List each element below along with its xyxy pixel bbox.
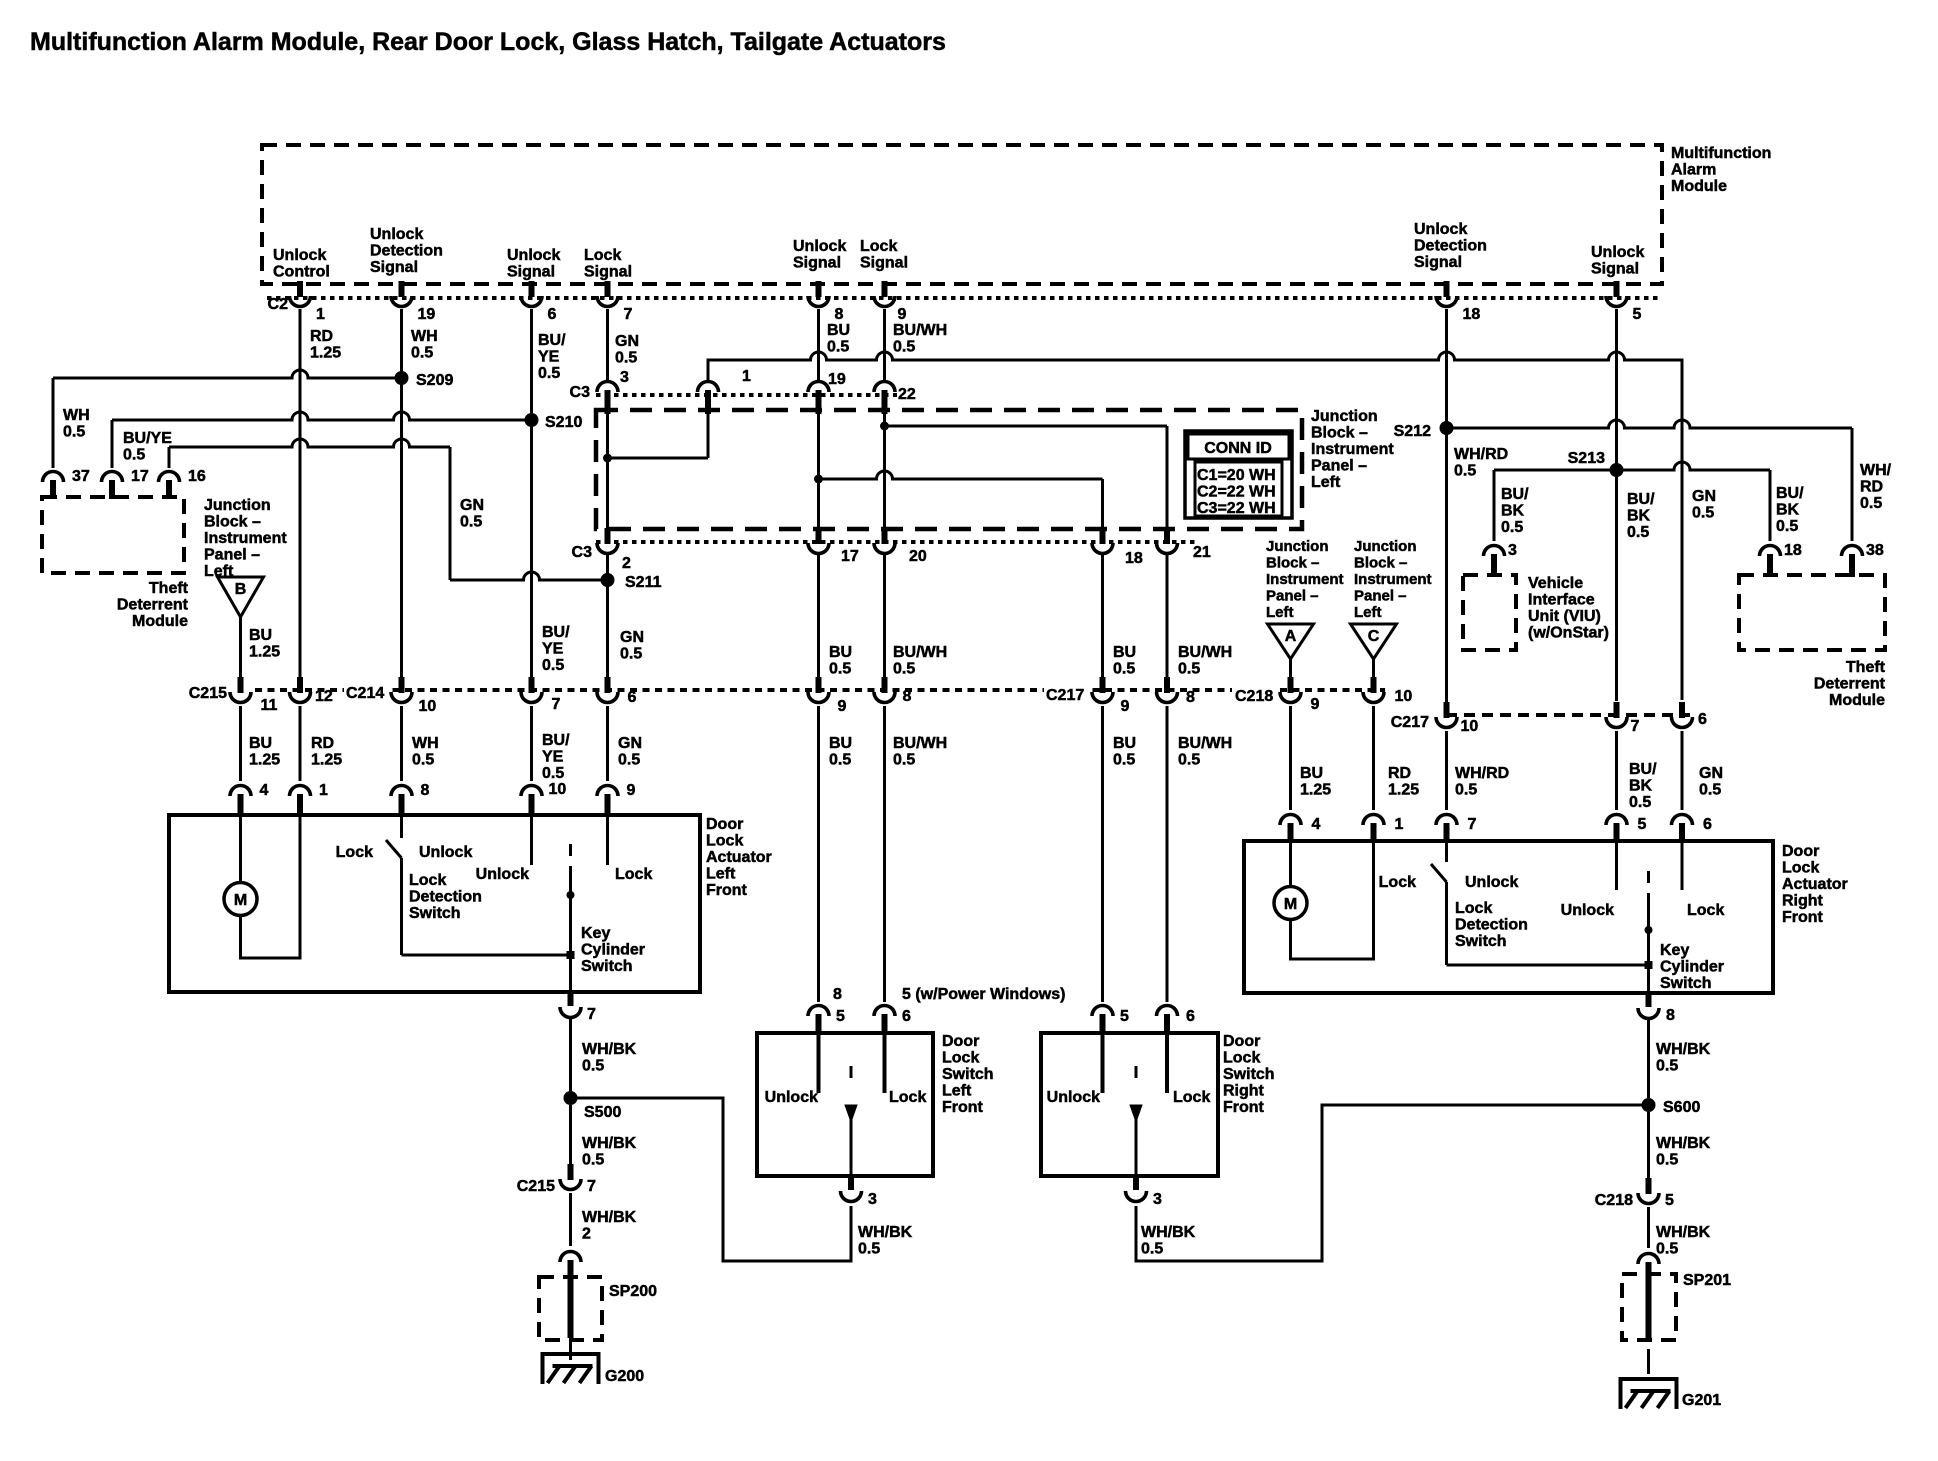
wire BU 1.25 triangle B down: [239, 615, 242, 677]
svg-text:17: 17: [131, 468, 149, 485]
svg-text:Lock: Lock: [706, 833, 743, 850]
svg-text:Lock: Lock: [1223, 1050, 1260, 1067]
svg-text:1: 1: [319, 782, 328, 799]
wire to ground G201 dashed: [1647, 1349, 1650, 1374]
svg-text:1: 1: [1395, 816, 1404, 833]
svg-text:WH/RD: WH/RD: [1455, 765, 1509, 782]
svg-text:GN: GN: [460, 497, 484, 514]
door lock switch left wiper: [850, 1066, 853, 1078]
svg-text:7: 7: [624, 306, 633, 323]
svg-text:8: 8: [903, 688, 912, 705]
wire RD 1.25 triangle C down: [1372, 657, 1375, 677]
connector right actuator pin 5: [1606, 815, 1627, 826]
svg-text:Switch: Switch: [581, 958, 633, 975]
svg-text:C214: C214: [346, 685, 384, 702]
svg-text:Switch: Switch: [409, 905, 461, 922]
svg-text:S213: S213: [1568, 450, 1605, 467]
svg-text:0.5: 0.5: [858, 1241, 880, 1258]
connector to splice pack SP201: [1638, 1254, 1659, 1265]
svg-text:Block –: Block –: [1311, 425, 1368, 442]
connector C2 pin 7: [605, 281, 611, 297]
module box Vehicle Interface Unit: [1463, 575, 1516, 650]
wire BU/WH 0.5 through junction block: [883, 410, 886, 531]
svg-text:4: 4: [1312, 816, 1321, 833]
svg-text:9: 9: [1121, 698, 1130, 715]
svg-text:0.5: 0.5: [582, 1152, 604, 1169]
svg-text:Signal: Signal: [584, 264, 632, 281]
svg-text:WH: WH: [411, 328, 438, 345]
svg-text:Control: Control: [273, 264, 330, 281]
junction block internal wire GN: [606, 410, 609, 531]
wire WH/BK S500 branch to door lock switch left: [577, 1098, 851, 1261]
svg-text:C2=22 WH: C2=22 WH: [1197, 484, 1276, 501]
wire BU/BK 0.5 to right actuator pin 5: [1615, 731, 1618, 810]
svg-text:Module: Module: [1829, 692, 1885, 709]
svg-text:5: 5: [836, 1008, 845, 1025]
connector right actuator pin 4: [1280, 815, 1301, 826]
svg-text:Module: Module: [132, 613, 188, 630]
svg-text:Junction: Junction: [1354, 538, 1417, 555]
svg-text:6: 6: [548, 306, 557, 323]
svg-text:A: A: [1285, 628, 1297, 645]
connector row C217 right dotted line: [1446, 713, 1690, 717]
svg-text:6: 6: [1703, 816, 1712, 833]
connector C2 pin 5: [1614, 281, 1620, 297]
svg-text:BU/: BU/: [1629, 761, 1657, 778]
motor M left actuator: [224, 883, 257, 916]
svg-text:0.5: 0.5: [618, 752, 640, 769]
svg-text:BK: BK: [1776, 502, 1800, 519]
splice S500: [564, 1091, 578, 1105]
svg-text:0.5: 0.5: [1656, 1241, 1678, 1258]
connector TDM pin 18: [1760, 546, 1781, 557]
svg-text:Unlock: Unlock: [1414, 221, 1467, 238]
wire WH 0.5 pin19 down: [400, 309, 403, 677]
connector C2 pin 19: [399, 281, 405, 297]
svg-text:BU/: BU/: [1627, 491, 1655, 508]
splice S211: [601, 573, 615, 587]
lock detection switch right: [1445, 841, 1448, 862]
svg-text:3: 3: [1508, 542, 1517, 559]
svg-text:0.5: 0.5: [829, 752, 851, 769]
svg-text:BU: BU: [249, 735, 272, 752]
svg-text:0.5: 0.5: [1860, 495, 1882, 512]
svg-text:GN: GN: [1699, 765, 1723, 782]
connector to splice pack SP200: [560, 1252, 581, 1263]
box Door Lock Switch Left Front: [757, 1033, 933, 1176]
wire GN right vertical continues: [1681, 419, 1684, 700]
svg-text:0.5: 0.5: [1455, 782, 1477, 799]
svg-text:B: B: [235, 581, 247, 598]
svg-text:C3=22 WH: C3=22 WH: [1197, 500, 1276, 517]
svg-text:Theft: Theft: [149, 580, 189, 597]
wire WH/BK 0.5 S600 down: [1647, 1112, 1650, 1181]
svg-text:Front: Front: [1782, 909, 1824, 926]
splice S213: [1610, 463, 1624, 477]
connector left actuator pin 7 bottom: [568, 992, 574, 1006]
splice pack SP201 box: [1622, 1274, 1676, 1340]
lock detection switch left: [400, 815, 403, 838]
connector C214 pin 7: [529, 677, 535, 693]
connector door lock switch right pin 6: [1157, 1006, 1178, 1016]
svg-text:WH/RD: WH/RD: [1454, 446, 1508, 463]
svg-text:3: 3: [1153, 1191, 1162, 1208]
svg-text:M: M: [234, 892, 247, 909]
wire RD 1.25 pin1 down: [299, 309, 302, 677]
wire BU 0.5 to door lock switch left: [817, 706, 820, 1002]
connector junction block pin 21: [1164, 528, 1170, 544]
svg-text:Block –: Block –: [1266, 555, 1319, 572]
svg-text:1.25: 1.25: [310, 345, 341, 362]
svg-text:0.5: 0.5: [893, 339, 915, 356]
svg-text:Panel –: Panel –: [1354, 588, 1407, 605]
wire BU 0.5 through junction block: [817, 410, 820, 531]
svg-text:WH/: WH/: [1860, 462, 1892, 479]
svg-text:4: 4: [260, 782, 269, 799]
wire GN 0.5 C3 pin2 to S211: [606, 553, 609, 677]
wire BU 0.5 down to row: [817, 553, 820, 677]
connector right actuator pin 7: [1436, 815, 1457, 826]
connector C3 pin 22: [874, 382, 895, 392]
svg-text:Door: Door: [1782, 843, 1819, 860]
svg-text:WH/BK: WH/BK: [858, 1224, 913, 1241]
connector left actuator pin 1: [290, 786, 311, 797]
connector C218 pin 5 bottom: [1646, 1178, 1652, 1194]
connector TDM pin 16: [159, 472, 180, 482]
svg-text:1.25: 1.25: [311, 752, 342, 769]
module box Theft Deterrent Module right: [1739, 575, 1885, 650]
svg-text:YE: YE: [538, 349, 560, 366]
svg-text:Door: Door: [942, 1033, 979, 1050]
svg-text:19: 19: [418, 306, 436, 323]
svg-text:Signal: Signal: [1414, 254, 1462, 271]
wire GN 0.5 pin7 down: [606, 309, 609, 382]
svg-text:Right: Right: [1782, 893, 1824, 910]
svg-text:7: 7: [587, 1178, 596, 1195]
svg-text:0.5: 0.5: [1692, 505, 1714, 522]
connector door lock switch right pin 3: [1133, 1176, 1139, 1190]
wire WH/RD 0.5 S212 to TDM pin 38: [1447, 420, 1853, 428]
svg-text:Lock: Lock: [615, 866, 652, 883]
svg-text:Unlock: Unlock: [476, 866, 529, 883]
svg-text:8: 8: [1186, 689, 1195, 706]
label C214: [344, 682, 390, 700]
svg-text:SP200: SP200: [609, 1283, 657, 1300]
svg-text:C3: C3: [570, 384, 591, 401]
svg-text:5: 5: [1120, 1008, 1129, 1025]
svg-text:0.5: 0.5: [893, 661, 915, 678]
svg-text:3: 3: [620, 369, 629, 386]
svg-text:WH/BK: WH/BK: [582, 1041, 637, 1058]
svg-text:0.5: 0.5: [412, 752, 434, 769]
connector row C3 bottom dotted line: [596, 540, 1195, 544]
junction triangle C: [1351, 624, 1397, 659]
key cylinder switch right wiper: [1647, 871, 1650, 883]
wire BU/BK 0.5 S213 to VIU pin 3: [1494, 469, 1617, 472]
wire BU/WH 0.5 to door lock switch left: [883, 706, 886, 1002]
wire WH 0.5 to actuator pin 8: [400, 706, 403, 781]
splice S210: [525, 413, 539, 427]
door lock switch right wiper: [1135, 1066, 1138, 1078]
svg-text:RD: RD: [310, 328, 333, 345]
svg-text:Signal: Signal: [370, 259, 418, 276]
connector C2 pin 18: [1444, 281, 1450, 297]
svg-text:WH/BK: WH/BK: [1656, 1135, 1711, 1152]
svg-text:0.5: 0.5: [63, 424, 85, 441]
connector row C2 dotted line: [267, 296, 1662, 300]
svg-text:Unlock: Unlock: [507, 247, 560, 264]
svg-text:0.5: 0.5: [1178, 661, 1200, 678]
svg-text:BU/: BU/: [542, 624, 570, 641]
connector left actuator pin 8: [391, 786, 412, 797]
svg-text:7: 7: [587, 1006, 596, 1023]
svg-text:C218: C218: [1595, 1192, 1633, 1209]
svg-text:Signal: Signal: [507, 264, 555, 281]
connector right actuator pin 1: [1363, 815, 1384, 826]
svg-text:S500: S500: [584, 1104, 621, 1121]
svg-text:Multifunction: Multifunction: [1671, 145, 1771, 162]
svg-text:Detection: Detection: [1414, 238, 1487, 255]
connector right actuator pin 8 bottom: [1646, 993, 1652, 1007]
svg-text:Key: Key: [581, 925, 610, 942]
svg-text:C217: C217: [1391, 714, 1429, 731]
wire BU/WH 0.5 to pin 21: [885, 425, 1168, 428]
svg-text:0.5: 0.5: [620, 646, 642, 663]
svg-text:Unlock: Unlock: [1591, 244, 1644, 261]
wire BU/YE down to TDM pin 17: [111, 420, 114, 468]
svg-text:Deterrent: Deterrent: [117, 597, 189, 614]
wire BU/YE 0.5 S210 to left: [112, 412, 532, 420]
svg-text:Unlock: Unlock: [1465, 874, 1518, 891]
svg-text:GN: GN: [618, 735, 642, 752]
wire GN unlock-signal jumper from C3 pin 1: [708, 352, 1682, 419]
svg-text:19: 19: [828, 371, 846, 388]
wire BU/WH 0.5 to door lock switch right: [1166, 706, 1169, 1002]
svg-text:6: 6: [628, 689, 637, 706]
junction triangle B: [218, 577, 264, 617]
svg-text:SP201: SP201: [1683, 1272, 1731, 1289]
svg-text:C217: C217: [1046, 687, 1084, 704]
connector C217 pin 8: [1164, 677, 1170, 693]
svg-text:0.5: 0.5: [542, 657, 564, 674]
splice pack SP200 box: [539, 1277, 602, 1340]
wire GN 0.5 to actuator pin 9: [606, 706, 609, 781]
svg-text:0.5: 0.5: [123, 447, 145, 464]
connector right actuator pin 6: [1672, 815, 1693, 826]
connector left actuator pin 4: [230, 786, 251, 797]
connector C2 pin 9: [882, 281, 888, 297]
svg-text:Signal: Signal: [1591, 261, 1639, 278]
svg-text:GN: GN: [1692, 488, 1716, 505]
svg-text:Vehicle: Vehicle: [1528, 575, 1583, 592]
wire BU/BK 0.5 S213 to TDM pin 18: [1617, 462, 1771, 470]
svg-text:C: C: [1368, 628, 1380, 645]
junction block dashed box middle: [596, 410, 1302, 529]
svg-text:Instrument: Instrument: [1354, 571, 1432, 588]
svg-text:0.5: 0.5: [1656, 1058, 1678, 1075]
wire BU/WH 0.5 down to row: [883, 553, 886, 677]
svg-text:18: 18: [1463, 306, 1481, 323]
svg-text:WH/BK: WH/BK: [1656, 1041, 1711, 1058]
svg-text:Unlock: Unlock: [273, 247, 326, 264]
connector C214 pin 10: [399, 677, 405, 693]
svg-text:20: 20: [909, 548, 927, 565]
svg-text:1.25: 1.25: [249, 644, 280, 661]
connector TDM pin 38: [1842, 546, 1863, 557]
svg-text:Theft: Theft: [1846, 659, 1886, 676]
svg-text:BU: BU: [829, 735, 852, 752]
wire WH/BK 0.5 down: [1647, 1207, 1650, 1248]
svg-text:Panel –: Panel –: [1266, 588, 1319, 605]
svg-text:BK: BK: [1629, 778, 1653, 795]
svg-text:Unlock: Unlock: [370, 226, 423, 243]
svg-text:8: 8: [835, 306, 844, 323]
svg-text:5 (w/Power Windows): 5 (w/Power Windows): [902, 986, 1065, 1003]
svg-text:0.5: 0.5: [1776, 518, 1798, 535]
svg-text:Lock: Lock: [336, 844, 373, 861]
svg-text:S210: S210: [545, 414, 582, 431]
svg-text:Deterrent: Deterrent: [1814, 676, 1886, 693]
connector C214 pin 6: [605, 677, 611, 693]
svg-text:Block –: Block –: [1354, 555, 1407, 572]
svg-text:21: 21: [1193, 544, 1211, 561]
connector left actuator pin 9: [597, 786, 618, 797]
svg-text:0.5: 0.5: [1501, 519, 1523, 536]
svg-text:Unit (VIU): Unit (VIU): [1528, 608, 1601, 625]
connector C3 pin 19: [808, 382, 829, 392]
svg-text:BK: BK: [1501, 503, 1525, 520]
svg-text:0.5: 0.5: [542, 765, 564, 782]
motor M right actuator: [1274, 887, 1307, 920]
svg-text:BU/: BU/: [542, 732, 570, 749]
svg-text:Actuator: Actuator: [706, 849, 772, 866]
svg-text:12: 12: [315, 688, 333, 705]
connector C215 pin 7 bottom: [568, 1164, 574, 1180]
key cylinder switch right contacts: [1615, 841, 1618, 890]
svg-text:0.5: 0.5: [1141, 1241, 1163, 1258]
svg-text:BK: BK: [1627, 508, 1651, 525]
connector TDM pin 37: [43, 472, 64, 483]
svg-text:3: 3: [868, 1191, 877, 1208]
svg-text:Door: Door: [1223, 1033, 1260, 1050]
svg-text:2: 2: [622, 555, 631, 572]
svg-text:BU: BU: [1113, 644, 1136, 661]
svg-text:Detection: Detection: [370, 243, 443, 260]
svg-text:Detection: Detection: [1455, 917, 1528, 934]
splice S212: [1440, 421, 1454, 435]
box Door Lock Actuator Left Front: [169, 815, 700, 992]
connector C217 pin 10: [1444, 702, 1450, 718]
svg-text:7: 7: [1631, 718, 1640, 735]
svg-text:BU/: BU/: [1776, 485, 1804, 502]
svg-text:1: 1: [316, 306, 325, 323]
connector pin 8: [882, 677, 888, 693]
svg-text:Lock: Lock: [1379, 874, 1416, 891]
svg-text:BU: BU: [1113, 735, 1136, 752]
connector C3 pin 1: [698, 382, 719, 392]
svg-text:C1=20 WH: C1=20 WH: [1197, 467, 1276, 484]
connector pin 9: [816, 677, 822, 693]
wire BU/YE 0.5 to actuator pin 10: [530, 706, 533, 781]
label C217: [1044, 682, 1088, 700]
svg-text:WH/BK: WH/BK: [582, 1135, 637, 1152]
wire GN 0.5 to right actuator pin 6: [1681, 731, 1684, 810]
svg-text:11: 11: [261, 697, 278, 714]
svg-text:Left: Left: [942, 1083, 972, 1100]
svg-text:0.5: 0.5: [827, 339, 849, 356]
door lock switch right contacts: [1101, 1033, 1105, 1093]
svg-text:17: 17: [841, 548, 859, 565]
wire RD 1.25 to actuator pin 1: [299, 706, 302, 781]
svg-text:BU: BU: [829, 644, 852, 661]
module box Multifunction Alarm Module: [262, 145, 1662, 284]
svg-text:0.5: 0.5: [615, 350, 637, 367]
svg-text:Left: Left: [706, 866, 736, 883]
connector door lock switch left pin 3: [848, 1176, 854, 1190]
svg-text:10: 10: [549, 781, 567, 798]
svg-text:M: M: [1284, 896, 1297, 913]
junction triangle A: [1268, 624, 1314, 659]
wire WH/RD pin18 down: [1445, 309, 1448, 703]
wire WH 0.5 S209 to left: [53, 370, 402, 378]
svg-text:10: 10: [419, 698, 437, 715]
svg-text:BU/: BU/: [1501, 486, 1529, 503]
wire motor loop right: [1291, 841, 1374, 959]
svg-text:Lock: Lock: [584, 247, 621, 264]
svg-text:RD: RD: [1860, 479, 1883, 496]
wire WH/BK S600 branch to door lock switch right: [1136, 1105, 1642, 1261]
connector door lock switch left pin 6: [874, 1006, 895, 1016]
svg-text:5: 5: [1665, 1192, 1674, 1209]
svg-text:Unlock: Unlock: [793, 238, 846, 255]
wire WH/RD 0.5 to right actuator pin 7: [1445, 731, 1448, 810]
svg-text:6: 6: [1698, 711, 1707, 728]
svg-text:0.5: 0.5: [460, 514, 482, 531]
svg-text:7: 7: [1468, 816, 1477, 833]
door lock switch left contacts: [817, 1033, 821, 1093]
svg-text:0.5: 0.5: [1627, 524, 1649, 541]
wire BU 0.5 right pair down: [1101, 553, 1104, 677]
ground G200: [543, 1354, 599, 1384]
wire BU 1.25 C218 to right actuator pin 4: [1289, 706, 1292, 810]
connector C217 pin 9: [1100, 677, 1106, 693]
wire to ground G200: [569, 1340, 572, 1360]
svg-text:8: 8: [421, 782, 430, 799]
svg-text:RD: RD: [311, 735, 334, 752]
ground G201: [1621, 1379, 1677, 1409]
svg-text:37: 37: [72, 468, 90, 485]
svg-text:C2: C2: [268, 296, 289, 313]
svg-text:10: 10: [1395, 688, 1413, 705]
svg-text:0.5: 0.5: [1629, 794, 1651, 811]
svg-text:(w/OnStar): (w/OnStar): [1528, 625, 1609, 642]
svg-text:22: 22: [898, 386, 916, 403]
wire WH/BK 0.5 to S600: [1647, 1018, 1650, 1098]
svg-text:0.5: 0.5: [411, 345, 433, 362]
svg-text:Front: Front: [942, 1099, 984, 1116]
svg-text:1.25: 1.25: [1300, 782, 1331, 799]
svg-text:Right: Right: [1223, 1083, 1265, 1100]
svg-text:YE: YE: [542, 749, 564, 766]
label C215: [186, 682, 228, 700]
wire BU/YE 0.5 pin6 down: [530, 309, 533, 677]
svg-text:WH/BK: WH/BK: [582, 1209, 637, 1226]
svg-text:0.5: 0.5: [538, 365, 560, 382]
wire GN 0.5 from TDM pin 16: [168, 447, 171, 468]
wire WH/BK 0.5 S500 down: [569, 1105, 572, 1167]
svg-text:Interface: Interface: [1528, 592, 1595, 609]
svg-text:6: 6: [1186, 1008, 1195, 1025]
